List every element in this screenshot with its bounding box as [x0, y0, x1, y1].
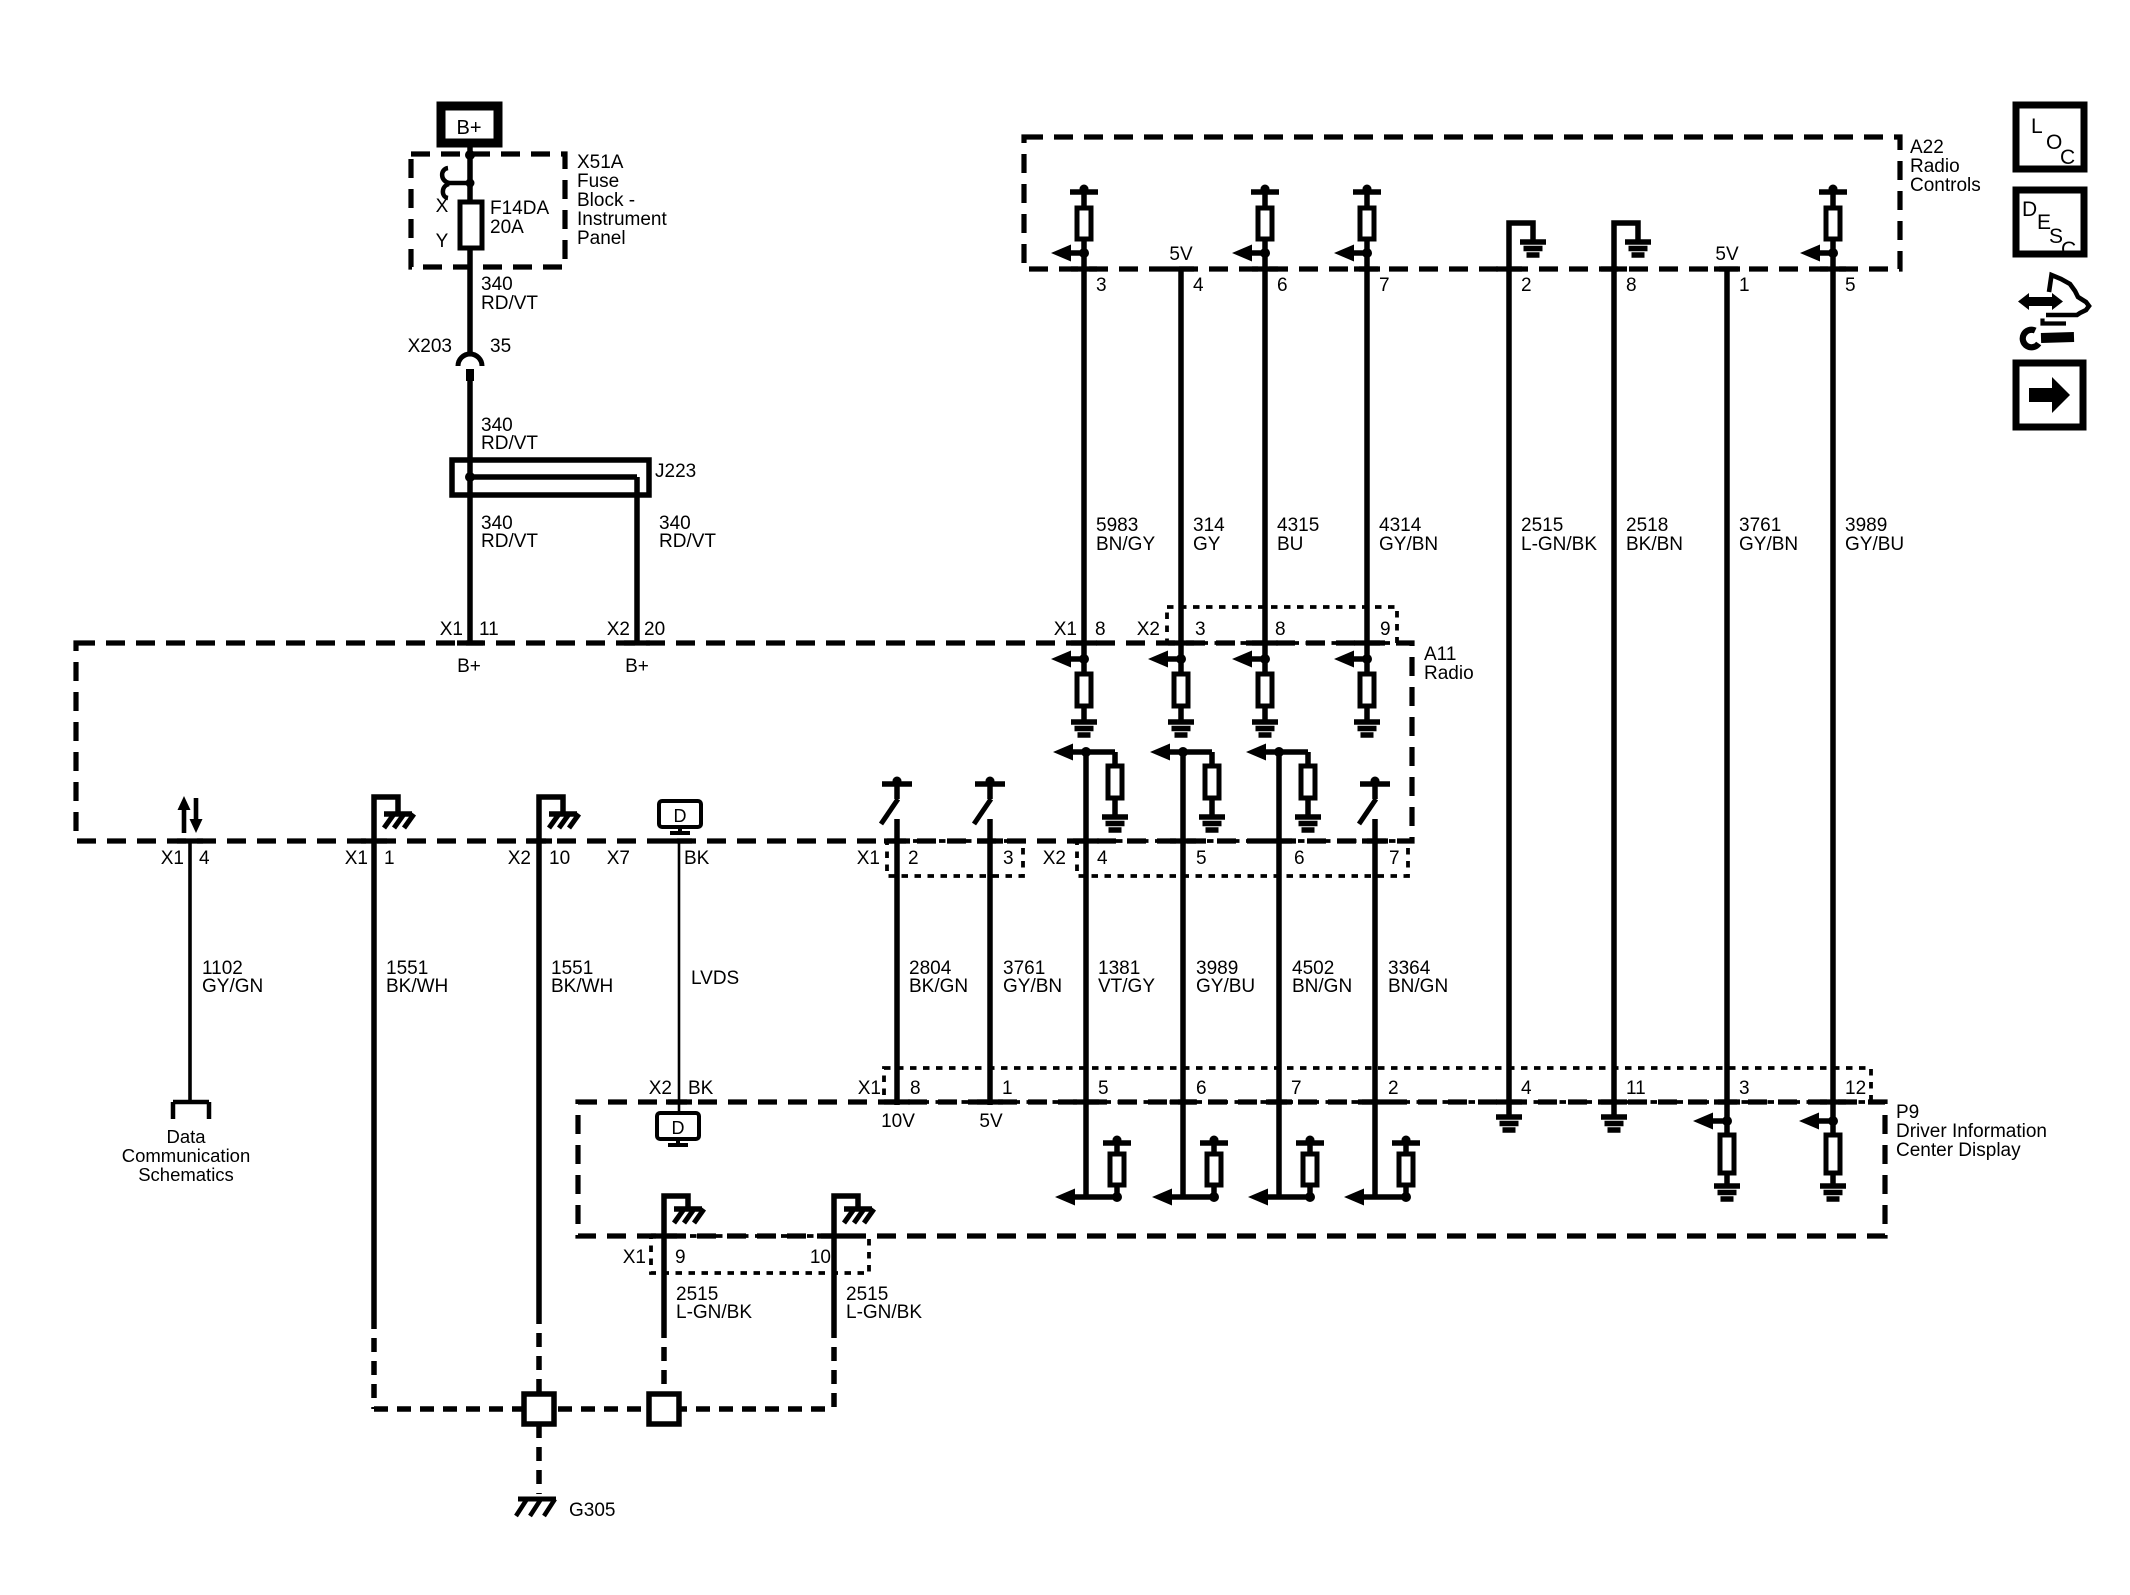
splice junction on 1551 BK/WH [524, 1394, 554, 1424]
svg-text:Radio: Radio [1910, 156, 1960, 177]
svg-text:X1: X1 [623, 1247, 646, 1268]
wire 4502 BN/GN (A11 X2-6 to P9 X1-7) [1276, 752, 1282, 1197]
wire 340 RD/VT X203 to J223 [467, 381, 473, 477]
svg-text:F14DA: F14DA [490, 198, 549, 219]
wire to ground G305 [536, 1424, 542, 1494]
pin X1-8 of P9 [884, 1099, 910, 1104]
svg-text:20: 20 [644, 619, 665, 640]
internal ground at A22 pin 2 [1509, 223, 1533, 269]
signal arrow at A22 pin 3 [1068, 250, 1084, 256]
svg-text:X203: X203 [408, 336, 452, 357]
svg-text:X51A: X51A [577, 152, 624, 173]
wire 314 GY (A22-4 to A11 X2-3) [1178, 269, 1184, 643]
wire 1102 GY/GN (A11 X1-4 to data schematics) [188, 841, 192, 1102]
svg-text:5: 5 [1196, 848, 1207, 869]
internal ground at A11 X2-9 [1354, 719, 1380, 725]
svg-text:B+: B+ [625, 656, 649, 677]
svg-text:BU: BU [1277, 534, 1303, 555]
svg-text:6: 6 [1196, 1078, 1207, 1099]
svg-text:7: 7 [1291, 1078, 1302, 1099]
input arrow at P9 X1-6 [1170, 1194, 1214, 1200]
icon LOC box [2016, 105, 2084, 169]
wire 3989 GY/BU (A22-5 to P9-12) [1830, 239, 1836, 1121]
svg-text:3989: 3989 [1845, 515, 1887, 536]
input arrow at P9 X1-7 [1266, 1194, 1310, 1200]
wire LVDS (A11 X7 to P9 X2) [678, 841, 681, 1102]
svg-text:2: 2 [1521, 275, 1532, 296]
svg-text:RD/VT: RD/VT [481, 531, 538, 552]
internal resistor at A11 X2-3 [1174, 674, 1188, 706]
svg-text:VT/GY: VT/GY [1098, 976, 1155, 997]
svg-text:D: D [674, 806, 687, 826]
svg-text:3: 3 [1739, 1078, 1750, 1099]
input arrow at P9 X1-2 [1362, 1194, 1406, 1200]
wire 2515 L-GN/BK (P9 X1-10 to G305) [831, 1236, 837, 1324]
svg-text:L-GN/BK: L-GN/BK [1521, 534, 1597, 555]
svg-text:LVDS: LVDS [691, 968, 739, 989]
svg-text:4314: 4314 [1379, 515, 1422, 536]
svg-text:3761: 3761 [1739, 515, 1781, 536]
wire 1551 BK/WH (A11 X2-10 to G305) [536, 841, 542, 1310]
switch at A11 X1-3 [975, 781, 1005, 787]
svg-text:35: 35 [490, 336, 511, 357]
icon DESC box [2016, 190, 2084, 254]
svg-text:GY/BN: GY/BN [1003, 976, 1062, 997]
splice junction on 2515 L-GN/BK [649, 1394, 679, 1424]
pin 6 of A22 [1252, 266, 1278, 271]
icon data link connector (arrows, vehicle, wrench) [2018, 293, 2063, 310]
pin X2-9 of A11 [1354, 640, 1380, 645]
pin 5 of A22 [1820, 266, 1846, 271]
input arrow at P9 X1-12 [1817, 1118, 1833, 1124]
pin X2-4 of A11 [1073, 838, 1099, 843]
wire 1381 VT/GY (A11 X2-4 to P9 X1-5) [1083, 752, 1089, 1197]
chassis ground at A11 X2-10 [539, 797, 563, 841]
svg-text:GY: GY [1193, 534, 1221, 555]
pin X1-1 of P9 [977, 1099, 1003, 1104]
input arrow at P9 X1-5 [1073, 1194, 1117, 1200]
internal ground at A11 X2-6 [1295, 814, 1321, 820]
svg-text:Driver Information: Driver Information [1896, 1121, 2047, 1142]
svg-text:4: 4 [1521, 1078, 1532, 1099]
svg-text:X1: X1 [1054, 619, 1077, 640]
pin X1-4 of A11 [177, 838, 203, 843]
pin X2-5 of A11 [1170, 838, 1196, 843]
fuse F14DA 20A [460, 202, 482, 248]
pin X2-6 of A11 [1266, 838, 1292, 843]
svg-text:BK: BK [684, 848, 710, 869]
wire 3364 BN/GN (A11 X2-7 to P9 X1-2) [1372, 819, 1378, 1197]
svg-text:X1: X1 [857, 848, 880, 869]
wire 4314 GY/BN (A22-7 to A11 X2-9) [1364, 239, 1370, 643]
svg-text:GY/BU: GY/BU [1845, 534, 1904, 555]
svg-text:X1: X1 [345, 848, 368, 869]
wire 340 RD/VT left branch to radio X1-11 [467, 477, 473, 643]
svg-text:10: 10 [810, 1247, 831, 1268]
pin X1-9 of P9 [651, 1233, 677, 1238]
svg-text:A11: A11 [1424, 644, 1456, 665]
svg-text:Center Display: Center Display [1896, 1140, 2021, 1161]
svg-text:X1: X1 [858, 1078, 881, 1099]
node J223 [465, 472, 475, 482]
svg-text:X2: X2 [1137, 619, 1160, 640]
svg-text:X7: X7 [607, 848, 630, 869]
chassis ground at P9 X1-9 [664, 1196, 688, 1236]
svg-text:8: 8 [910, 1078, 921, 1099]
svg-text:5V: 5V [979, 1111, 1003, 1132]
wire B+ to fuse block [467, 144, 473, 156]
signal arrow at A11 X1-8 [1081, 643, 1087, 675]
internal pull-up resistor at P9 X1-7 [1296, 1140, 1324, 1146]
svg-text:BN/GY: BN/GY [1096, 534, 1155, 555]
svg-text:2518: 2518 [1626, 515, 1668, 536]
svg-text:Controls: Controls [1910, 175, 1981, 196]
svg-text:RD/VT: RD/VT [659, 531, 716, 552]
pin X2-20 of A11 [624, 640, 650, 645]
svg-text:314: 314 [1193, 515, 1225, 536]
pin 1 of A22 [1714, 266, 1740, 271]
signal arrow at A11 X2-3 [1178, 643, 1184, 675]
svg-text:B+: B+ [457, 656, 481, 677]
svg-text:GY/BN: GY/BN [1739, 534, 1798, 555]
pin X2-8 of A11 [1252, 640, 1278, 645]
svg-text:GY/BU: GY/BU [1196, 976, 1255, 997]
connector X2 dotted box at A11 top [1167, 607, 1397, 643]
pin X1-2 of A11 [884, 838, 910, 843]
svg-text:1: 1 [384, 848, 395, 869]
pin X7-BK of A11 [666, 838, 692, 843]
pin X1-12 of P9 [1820, 1099, 1846, 1104]
pin X1-4 of P9 [1496, 1099, 1522, 1104]
pin X1-11 of P9 [1601, 1099, 1627, 1104]
termination resistor at A11 X2-5 [1209, 752, 1215, 767]
svg-text:20A: 20A [490, 217, 524, 238]
output arrow node at A11 X2-6 [1264, 749, 1308, 755]
svg-text:9: 9 [1380, 619, 1391, 640]
svg-text:3: 3 [1003, 848, 1014, 869]
radio A11 dashed box [76, 643, 1412, 841]
connector X1 dotted box at P9 top [884, 1068, 1871, 1102]
svg-text:11: 11 [479, 619, 499, 640]
pin X1-11 of A11 [457, 640, 483, 645]
svg-text:8: 8 [1626, 275, 1637, 296]
signal arrow at A11 X2-8 [1262, 643, 1268, 675]
termination resistor at A11 X2-4 [1112, 752, 1118, 767]
svg-text:X: X [436, 196, 449, 217]
pin X1-3 of P9 [1714, 1099, 1740, 1104]
internal ground at A11 X2-5 [1199, 814, 1225, 820]
wire 2804 BK/GN (A11 X1-2 to P9 X1-8) [894, 819, 900, 1105]
pin X2-10 of A11 [526, 838, 552, 843]
svg-text:340: 340 [481, 274, 513, 295]
svg-text:L: L [2031, 115, 2043, 138]
svg-text:C: C [2060, 146, 2075, 169]
pin X1-5 of P9 [1073, 1099, 1099, 1104]
svg-text:BN/GN: BN/GN [1388, 976, 1448, 997]
internal pull-up resistor at P9 X1-5 [1103, 1140, 1131, 1146]
power symbol B+ [441, 106, 498, 143]
internal ground at P9 X1-11 [1601, 1114, 1627, 1120]
wire J223 internal branch [470, 474, 637, 480]
internal pull-up resistor at P9 X1-2 [1392, 1140, 1420, 1146]
svg-text:X2: X2 [508, 848, 531, 869]
svg-text:BK/BN: BK/BN [1626, 534, 1683, 555]
output arrow node at A11 X2-4 [1071, 749, 1115, 755]
ground G305 [518, 1497, 556, 1502]
internal resistor at A11 X2-9 [1360, 674, 1374, 706]
svg-text:4: 4 [1097, 848, 1108, 869]
pin X1-6 of P9 [1170, 1099, 1196, 1104]
display icon at P9 X2 [678, 1102, 681, 1113]
connector X2 dotted box at A11 bottom [1077, 841, 1408, 876]
switch at A11 X2-7 [1360, 781, 1390, 787]
svg-text:RD/VT: RD/VT [481, 433, 538, 454]
svg-text:Block -: Block - [577, 190, 635, 211]
svg-text:Radio: Radio [1424, 663, 1474, 684]
internal pull-up resistor at P9 X1-6 [1200, 1140, 1228, 1146]
wire 3761 GY/BN (A22-1 to P9-3) [1724, 269, 1730, 1121]
svg-text:5V: 5V [1715, 244, 1739, 265]
connector X1 dotted box at A11 bottom [887, 841, 1023, 876]
connector X1 dotted box at P9 bottom [651, 1236, 869, 1273]
svg-text:BK/WH: BK/WH [551, 976, 613, 997]
connector cavity symbol at fuse top [449, 181, 470, 186]
internal ground at A11 X2-8 [1252, 719, 1278, 725]
svg-text:L-GN/BK: L-GN/BK [676, 1302, 752, 1323]
internal resistor at P9 X1-12 [1830, 1121, 1836, 1136]
wire 4315 BU (A22-6 to A11 X2-8) [1262, 239, 1268, 643]
internal pull-up resistor at A22 pin 3 [1070, 189, 1098, 195]
svg-text:9: 9 [675, 1247, 686, 1268]
input arrow at P9 X1-3 [1711, 1118, 1727, 1124]
wire into fuse [467, 155, 473, 203]
signal arrow at A22 pin 6 [1249, 250, 1265, 256]
internal resistor at P9 X1-3 [1724, 1121, 1730, 1136]
pin 7 of A22 [1354, 266, 1380, 271]
svg-text:Communication: Communication [122, 1145, 251, 1166]
wire 2518 BK/BN (A22-8 to P9-11) [1611, 269, 1617, 1117]
signal arrow at A22 pin 5 [1817, 250, 1833, 256]
svg-text:2: 2 [908, 848, 919, 869]
svg-text:Y: Y [436, 231, 449, 252]
svg-text:RD/VT: RD/VT [481, 293, 538, 314]
svg-text:7: 7 [1389, 848, 1400, 869]
svg-text:D: D [2022, 198, 2037, 221]
svg-text:X2: X2 [1043, 848, 1066, 869]
chassis ground at P9 X1-10 [834, 1196, 858, 1236]
pin 2 of A22 [1496, 266, 1522, 271]
svg-text:G305: G305 [569, 1500, 615, 1521]
svg-text:3: 3 [1096, 275, 1107, 296]
svg-text:Instrument: Instrument [577, 209, 667, 230]
internal ground chain at P9 X1-3 [1714, 1183, 1740, 1189]
svg-text:X1: X1 [161, 848, 184, 869]
svg-text:X2: X2 [607, 619, 630, 640]
svg-text:Fuse: Fuse [577, 171, 619, 192]
svg-text:A22: A22 [1910, 137, 1944, 158]
svg-text:GY/GN: GY/GN [202, 976, 263, 997]
icon forward arrow box [2016, 363, 2083, 427]
termination resistor at A11 X2-6 [1305, 752, 1311, 767]
wire 3989 GY/BU (A11 X2-5 to P9 X1-6) [1180, 752, 1186, 1197]
internal resistor at A11 X2-8 [1258, 674, 1272, 706]
svg-text:4315: 4315 [1277, 515, 1319, 536]
display icon at A11 X7 [659, 801, 701, 827]
svg-text:2: 2 [1388, 1078, 1399, 1099]
svg-text:BN/GN: BN/GN [1292, 976, 1352, 997]
svg-text:Data: Data [166, 1126, 206, 1147]
svg-text:5983: 5983 [1096, 515, 1138, 536]
wire 5983 BN/GY (A22-3 to A11 X1-8) [1081, 239, 1087, 643]
wire 340 RD/VT fuse to X203 [467, 248, 473, 355]
svg-text:5V: 5V [1169, 244, 1193, 265]
display P9 dashed box [578, 1102, 1885, 1236]
internal pull-up resistor at A22 pin 5 [1819, 189, 1847, 195]
internal ground at P9 X1-4 [1496, 1114, 1522, 1120]
svg-text:5: 5 [1098, 1078, 1109, 1099]
svg-text:1: 1 [1002, 1078, 1013, 1099]
svg-text:3: 3 [1195, 619, 1206, 640]
internal ground at A11 X2-3 [1168, 719, 1194, 725]
svg-text:10V: 10V [881, 1111, 915, 1132]
internal ground at A11 X1-8 [1071, 719, 1097, 725]
node fuse block feed [465, 150, 475, 160]
wire 340 RD/VT right branch to radio X2-20 [634, 477, 640, 643]
internal ground at A22 pin 8 [1614, 223, 1638, 269]
svg-text:D: D [672, 1118, 685, 1138]
pin X1-2 of P9 [1362, 1099, 1388, 1104]
switch at A11 X1-2 [882, 781, 912, 787]
internal resistor at A11 X1-8 [1077, 674, 1091, 706]
chassis ground at A11 X1-1 [374, 797, 398, 841]
wire 1551 BK/WH (A11 X1-1 to G305) [371, 841, 377, 1315]
svg-text:BK: BK [688, 1078, 714, 1099]
pin X1-7 of P9 [1266, 1099, 1292, 1104]
pin X2-3 of A11 [1168, 640, 1194, 645]
svg-text:B+: B+ [456, 117, 481, 139]
svg-text:J223: J223 [655, 461, 696, 482]
svg-text:6: 6 [1294, 848, 1305, 869]
svg-text:7: 7 [1379, 275, 1390, 296]
pin X1-8 of A11 [1071, 640, 1097, 645]
fuse block X51A dashed box [411, 154, 565, 267]
internal ground chain at P9 X1-12 [1820, 1183, 1846, 1189]
bidirectional data symbol at A11 X1-4 [182, 808, 187, 833]
signal arrow at A22 pin 7 [1351, 250, 1367, 256]
internal pull-up resistor at A22 pin 7 [1353, 189, 1381, 195]
wire 2515 L-GN/BK (P9 X1-9 to G305) [661, 1236, 667, 1324]
internal pull-up resistor at A22 pin 6 [1251, 189, 1279, 195]
svg-text:2515: 2515 [1521, 515, 1563, 536]
svg-text:BK/GN: BK/GN [909, 976, 968, 997]
internal ground at A11 X2-4 [1102, 814, 1128, 820]
pin 8 of A22 [1601, 266, 1627, 271]
svg-text:GY/BN: GY/BN [1379, 534, 1438, 555]
svg-text:6: 6 [1277, 275, 1288, 296]
svg-text:L-GN/BK: L-GN/BK [846, 1302, 922, 1323]
radio controls A22 dashed box [1024, 137, 1900, 269]
splice J223 [452, 460, 649, 495]
svg-text:12: 12 [1845, 1078, 1866, 1099]
svg-text:Panel: Panel [577, 228, 626, 249]
pin X1-1 of A11 [361, 838, 387, 843]
svg-text:X2: X2 [649, 1078, 672, 1099]
ground bus dashed wire [374, 1406, 834, 1412]
svg-text:BK/WH: BK/WH [386, 976, 448, 997]
svg-text:X1: X1 [440, 619, 463, 640]
svg-text:4: 4 [1193, 275, 1204, 296]
svg-text:P9: P9 [1896, 1102, 1919, 1123]
pin X1-3 of A11 [977, 838, 1003, 843]
svg-text:4: 4 [199, 848, 210, 869]
wire 3761 GY/BN (A11 X1-3 to P9 X1-1) [987, 819, 993, 1105]
svg-text:1: 1 [1739, 275, 1750, 296]
svg-text:8: 8 [1095, 619, 1106, 640]
svg-text:Schematics: Schematics [138, 1164, 234, 1185]
svg-text:10: 10 [549, 848, 570, 869]
off-page connector to data communication schematics [173, 1102, 209, 1119]
svg-text:C: C [2061, 238, 2076, 261]
signal arrow at A11 X2-9 [1364, 643, 1370, 675]
pin X1-10 of P9 [821, 1233, 847, 1238]
output arrow node at A11 X2-5 [1168, 749, 1212, 755]
pin 3 of A22 [1071, 266, 1097, 271]
pin X2-BK of P9 [666, 1099, 692, 1104]
svg-text:11: 11 [1626, 1078, 1646, 1099]
svg-text:5: 5 [1845, 275, 1856, 296]
pin X2-7 of A11 [1362, 838, 1388, 843]
svg-text:8: 8 [1275, 619, 1286, 640]
pin 4 of A22 [1168, 266, 1194, 271]
wire 2515 L-GN/BK (A22-2 to P9-4) [1506, 269, 1512, 1117]
